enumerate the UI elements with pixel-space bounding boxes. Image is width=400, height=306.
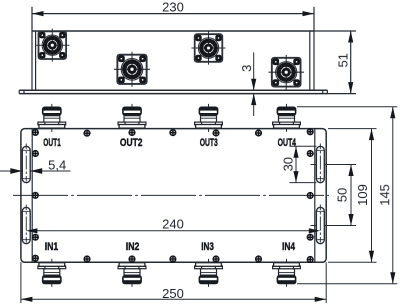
arrow 30 top	[293, 146, 298, 158]
arrow 3 bottom	[251, 94, 256, 106]
screw SB3 (bottom edge)	[170, 256, 176, 262]
box outline	[21, 129, 326, 263]
dim 145 line	[392, 107, 394, 284]
connector OUT4 profile	[273, 104, 301, 132]
box top edge	[32, 30, 314, 32]
screw SB1 (bottom edge)	[84, 256, 90, 262]
svg-text:OUT2: OUT2	[120, 137, 143, 149]
dim 51 line	[350, 31, 352, 94]
svg-text:OUT1: OUT1	[43, 137, 60, 149]
svg-text:OUT4: OUT4	[278, 137, 296, 149]
dim 50 ext lines	[311, 165, 357, 226]
svg-text:250: 250	[162, 286, 184, 301]
arrow 50 bottom	[348, 214, 353, 226]
dim 240 line	[26, 230, 320, 232]
inner wall right	[314, 129, 316, 263]
arrow 5,4 right	[30, 168, 42, 174]
arrow 51 top	[348, 31, 353, 43]
svg-text:230: 230	[162, 0, 184, 14]
dim 3 line lower	[253, 94, 255, 116]
screw SL3 (left column)	[33, 192, 39, 198]
dim 30 line	[295, 146, 297, 182]
arrow 145 bottom	[390, 272, 395, 284]
screw SL2 (left column)	[33, 151, 39, 157]
connector OUT1 profile	[38, 104, 66, 132]
right ear lines	[310, 31, 314, 90]
screw ST3 (top edge)	[170, 130, 176, 136]
mounting slot H3 (right upper)	[316, 144, 324, 186]
plate right end cap	[323, 90, 328, 93]
svg-text:IN2: IN2	[126, 241, 140, 253]
screw ST2 (top edge)	[129, 130, 135, 136]
svg-text:IN4: IN4	[282, 241, 295, 253]
screw ST4 (top edge)	[213, 130, 219, 136]
connector OUT3 profile	[195, 104, 223, 132]
arrow 145 top	[390, 107, 395, 119]
screw SR5 (right column)	[307, 257, 313, 263]
svg-text:IN1: IN1	[45, 241, 59, 253]
arrow 30 bottom	[293, 171, 298, 183]
dim 3 line upper	[253, 52, 255, 90]
arrow 240 right	[309, 228, 321, 233]
connector U2 face	[114, 52, 150, 87]
arrow 5,4 left	[10, 168, 22, 174]
dim 51 ext bottom	[327, 93, 356, 95]
arrow 250 right	[315, 297, 327, 302]
center line	[13, 194, 329, 196]
svg-text:OUT3: OUT3	[200, 137, 218, 149]
dim 50 line	[350, 165, 352, 226]
dim 145 ext lines	[297, 107, 397, 284]
screw SR2 (right column)	[307, 151, 313, 157]
arrow 250 left	[21, 297, 33, 302]
svg-text:109: 109	[355, 184, 370, 206]
dim 250 line	[21, 298, 326, 300]
svg-text:30: 30	[281, 157, 296, 171]
mounting slot H4 (right lower)	[316, 205, 324, 247]
arrow 230 left	[32, 11, 44, 16]
connector U1 face	[35, 29, 69, 62]
svg-text:51: 51	[335, 53, 350, 67]
screw SR1 (right column)	[307, 129, 313, 135]
svg-text:50: 50	[335, 188, 350, 202]
screw SB5 (bottom edge)	[256, 256, 262, 262]
svg-text:IN3: IN3	[201, 241, 214, 253]
dim 30 ext lines	[290, 146, 317, 182]
screw SL1 (left column)	[33, 130, 39, 136]
connector U3 face	[192, 31, 226, 64]
svg-text:145: 145	[377, 184, 392, 206]
screw ST1 (top edge)	[84, 130, 90, 136]
arrow 230 right	[303, 11, 315, 16]
screw SL4 (left column)	[33, 234, 39, 240]
mounting slot H2 (left lower)	[22, 205, 30, 247]
dim 230 ext right	[313, 7, 315, 31]
arrow 240 left	[26, 228, 38, 233]
dim 109 line	[371, 129, 373, 263]
connector IN4 profile	[273, 259, 301, 287]
screw SR4 (right column)	[307, 234, 313, 240]
connector IN2 profile	[118, 259, 146, 287]
svg-text:5,4: 5,4	[48, 157, 66, 172]
svg-text:240: 240	[162, 216, 184, 231]
dim 51 ext top	[314, 30, 356, 32]
connector U4 face	[269, 55, 304, 90]
screw SR3 (right column)	[307, 193, 313, 199]
dim 230 line	[32, 13, 314, 15]
screw SB4 (bottom edge)	[213, 256, 219, 262]
base plate top	[19, 89, 327, 91]
screw SL5 (left column)	[33, 255, 39, 261]
dim 230 ext left / bracket left edge	[31, 7, 33, 91]
dim 250 ext lines	[21, 262, 326, 303]
svg-text:3: 3	[239, 65, 254, 72]
arrow 109 top	[369, 129, 374, 141]
connector OUT2 profile	[118, 104, 146, 132]
base plate bottom	[19, 93, 327, 95]
plate left end cap	[19, 90, 24, 93]
dim 5,4 left line	[0, 170, 22, 172]
screw SB2 (bottom edge)	[129, 256, 135, 262]
dim 109 ext lines	[328, 129, 377, 263]
connector IN1 profile	[38, 259, 66, 287]
arrow 109 bottom	[369, 251, 374, 262]
arrow 3 top	[251, 79, 256, 91]
arrow 51 bottom	[348, 82, 353, 94]
dim 5,4 right line	[30, 170, 70, 172]
screw ST5 (top edge)	[256, 130, 262, 136]
mounting slot H1 (left upper, 5.4x30)	[22, 144, 30, 186]
arrow 50 top	[348, 165, 353, 177]
left ear inner line	[35, 31, 37, 90]
connector IN3 profile	[195, 259, 223, 287]
inner wall left	[31, 129, 33, 263]
